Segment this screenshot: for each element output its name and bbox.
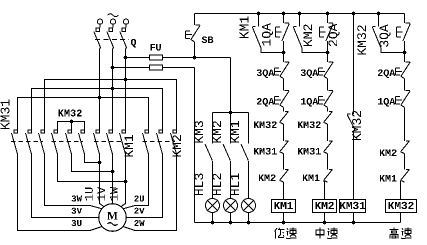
wire L3 chain b [404, 79, 406, 91]
wire KM31 coil to rail [353, 213, 355, 223]
pushbutton 3QA NC (L1) [275, 62, 290, 79]
label KM31 (L1) [254, 148, 277, 155]
wire lamp branch 3 lower [248, 213, 250, 223]
junction KM2 coil / bottom rail [323, 221, 327, 225]
wire 1QA to merge [283, 41, 285, 53]
junction SB / fuse line 1 [193, 56, 197, 60]
wire lamp branch 3 upper [248, 113, 250, 144]
junction rail / KM1 selfhold [257, 12, 261, 16]
wire KM31-1 to motor 3U [18, 154, 103, 231]
label KM3 [194, 121, 203, 143]
junction phase C / fuse line 1 [124, 56, 128, 60]
label 1QA (L3) [378, 98, 395, 107]
motor M circle [99, 204, 127, 232]
wire KM32 selfhold drop [378, 14, 380, 27]
wire L2 chain f [323, 180, 326, 199]
wire control neutral drop [194, 68, 196, 223]
wire KM2 selfhold foot + merge bar [302, 48, 328, 53]
wire L3 chain c [404, 107, 406, 141]
label KM31 (main contacts) [1, 100, 10, 130]
pushbutton SB (NC stop) [186, 25, 201, 42]
contact KM2 self-hold [293, 27, 302, 49]
junction rail / KM32 selfhold [377, 12, 381, 16]
coil KM1 [272, 200, 296, 213]
wire KM32 coil to rail [400, 213, 402, 223]
wire KM1-3 to motor 1W [121, 154, 126, 207]
wire KM1 selfhold drop [258, 14, 260, 27]
wire KM2-1 to motor 2U [123, 154, 149, 209]
contact KM31 NO (L2) [324, 141, 333, 154]
label 2W [134, 220, 144, 226]
pushbutton 3QA NC (L2) [319, 62, 334, 79]
wire L2 chain a [327, 53, 329, 62]
contactor KM32 main contact 1 [52, 130, 58, 154]
label speed low (low-speed) [275, 228, 297, 239]
wire KM1-2 to motor 1V [112, 154, 114, 204]
switch Q pole 2 (phase B) [107, 19, 116, 49]
wire KM1-1 to motor 1U [100, 154, 105, 207]
wire phase B vertical [112, 49, 114, 130]
contactor KM2 main contact 2 [157, 130, 163, 154]
label 3V [72, 208, 82, 214]
wire SB drop [194, 14, 196, 26]
label KM32 (KM31 branch) [352, 111, 361, 140]
junction phase B / feeder 2 [111, 87, 115, 91]
contact KM3 (lamp branch) [205, 144, 212, 161]
wire 3QA drop [404, 14, 406, 23]
switch Q pole 3 (phase C) [120, 19, 129, 49]
wire 2QA drop [327, 14, 329, 23]
motor tilde [108, 223, 118, 226]
label HL1 [231, 173, 240, 195]
junction KM1 coil / bottom rail [282, 221, 286, 225]
KM32 star bridge stub [71, 122, 73, 130]
contactor KM2 main contact 3 [171, 130, 177, 154]
junction 1W tie [124, 180, 128, 184]
label KM1 (L3) [380, 175, 397, 182]
wire L2 chain c [327, 107, 329, 111]
wire SB to fuse junction [194, 42, 196, 58]
label 3QA (L1) [257, 69, 275, 78]
junction 1V tie [111, 170, 115, 174]
wire KM31 branch lower [353, 131, 355, 200]
contactor KM31 main contact 1 [12, 130, 18, 154]
wire fuse line 1 (phase C to lamp feeder) [126, 57, 231, 59]
KM1 linkage (dashed) [94, 141, 124, 143]
wire KM31 branch upper [353, 14, 355, 114]
contact KM32 NO (L1) [280, 111, 289, 124]
wire KM32 selfhold foot + merge bar [381, 48, 405, 53]
contact KM32 NO (L2) [324, 111, 333, 124]
junction star bridge [70, 120, 74, 124]
label 1QA (L2) [301, 98, 318, 107]
contact KM1 self-hold [252, 27, 261, 49]
wire KM1 selfhold foot + merge bar [261, 48, 284, 53]
junction 1U tie [98, 161, 102, 165]
contact KM2 (lamp branch) [223, 144, 230, 161]
power supply tilde (AC source marker) [108, 14, 119, 17]
switch Q pole 1 (phase A) [94, 19, 103, 49]
pushbutton 2QA NC (L3) [396, 62, 411, 79]
contactor KM2 main contact 1 [143, 130, 149, 154]
contactor KM1 main contact 3 [120, 130, 126, 154]
contactor KM32 main contact 3 [79, 130, 85, 154]
wire 2QA to merge [327, 41, 329, 53]
wire lamp branch 3 middle [248, 161, 250, 199]
wire KM1 coil to rail [283, 213, 285, 223]
contact KM2 NO (L3) [401, 141, 410, 154]
wire L1 chain e [283, 154, 285, 170]
wire KM31-2 to motor 3V [32, 154, 99, 218]
contactor KM31 main contact 3 [39, 130, 45, 154]
KM32 linkage (dashed) [52, 141, 84, 143]
wire lamp branch 2 middle [230, 161, 232, 199]
wire L2 chain b [327, 79, 329, 91]
pushbutton 1QA NC (L3) [396, 91, 411, 108]
wire phase C vertical [125, 49, 127, 130]
junction merge L2 [326, 51, 330, 55]
label 3QA (L2) [301, 69, 319, 78]
label HL2 [212, 174, 221, 195]
junction rail / 1QA [282, 12, 286, 16]
wire L1 chain c [283, 107, 285, 111]
label speed high (high-speed) [389, 228, 411, 239]
wire L1 chain a [283, 53, 285, 62]
label 3QA (top) [380, 24, 391, 47]
switch Q linkage (dashed) [95, 39, 129, 41]
wire lamp branch 1 upper [212, 113, 214, 144]
wire feeder line 1 (phase C to KM31-3 and KM2-3) [45, 80, 177, 130]
KM32 star bridge bar [58, 122, 85, 130]
wire lamp header [213, 112, 249, 114]
pushbutton 2QA (NO start mid) [319, 23, 333, 41]
contact KM32 NO (KM31 branch) [347, 114, 355, 131]
lamp HL1 [242, 199, 256, 213]
junction rail / 2QA [326, 12, 330, 16]
junction lamp 3 / bottom rail [247, 221, 251, 225]
wire lamp branch 2 lower [230, 213, 232, 223]
label KM32 (L2) [298, 121, 321, 128]
wire L3 chain d [404, 154, 406, 170]
junction phase A / feeder 3 [98, 96, 102, 100]
label SB [202, 36, 214, 43]
wire L1 chain d [283, 124, 285, 141]
fuse FU-2 [150, 65, 163, 70]
label KM32 (main contacts) [58, 110, 81, 117]
label 1QA [262, 23, 273, 45]
label KM1 (L2) [303, 174, 320, 181]
label speed mid (mid-speed) [316, 228, 338, 239]
label 2QA (L3) [378, 69, 395, 78]
label KM31 (L2) [298, 148, 321, 155]
wire KM31-3 to motor 3W [45, 154, 103, 209]
wire KM2-3 to motor 2W [123, 154, 177, 231]
wire KM2 selfhold drop [299, 14, 301, 27]
coil KM2 [313, 200, 337, 213]
wire KM32-1 to node 1W [58, 154, 126, 182]
wire 1QA drop [283, 14, 285, 23]
label KM1 [231, 121, 240, 143]
label HL3 [194, 174, 203, 196]
control top rail [195, 13, 405, 15]
lamp HL2 [224, 199, 238, 213]
junction merge L3 [403, 51, 407, 55]
pushbutton 1QA NC (L2) [319, 91, 334, 108]
junction merge L1 [282, 51, 286, 55]
wire L2 chain d [327, 124, 329, 141]
fuse FU-1 [150, 55, 163, 60]
label 1V [97, 187, 105, 200]
wire KM2-2 to motor 2V [126, 154, 162, 218]
junction rail / KM2 selfhold [298, 12, 302, 16]
label KM2 [212, 121, 221, 142]
pushbutton 1QA (NO start low) [275, 23, 289, 41]
label 2QA (top) [329, 24, 340, 46]
wire lamp branch 1 lower [212, 213, 214, 223]
junction lamp 2 / bottom rail [229, 221, 233, 225]
label KM2 (L3) [380, 149, 397, 156]
junction phase C / feeder 1 [124, 78, 128, 82]
pushbutton 2QA NC (L1) [275, 91, 290, 108]
contactor KM31 main contact 2 [26, 130, 32, 154]
wire lamp branch 1 middle [212, 161, 214, 199]
contact KM1 NO (L2) [324, 169, 333, 182]
junction lamp header [229, 111, 233, 115]
wire KM2 coil to rail [324, 213, 326, 223]
label 3U [72, 220, 82, 226]
label Q [131, 39, 136, 48]
junction phase B / fuse line 2 [111, 66, 115, 70]
label 3W [72, 195, 82, 201]
KM31 linkage (dashed) [11, 141, 43, 143]
coil KM31 [340, 200, 366, 213]
contact KM2 NO (L1) [280, 169, 289, 182]
contact KM1 NO (L3) [401, 169, 410, 182]
label 1U [85, 188, 93, 201]
wire lamp branch 2 upper [230, 113, 232, 144]
wire L1 chain b [283, 79, 285, 91]
label KM2 (self-hold) [303, 25, 312, 46]
contact KM31 NO (L1) [280, 141, 289, 154]
contactor KM32 main contact 2 [66, 130, 72, 154]
wire KM32-2 to node 1V [72, 154, 113, 172]
label 2U [134, 195, 144, 201]
wire L2 chain e [327, 154, 329, 170]
label FU [150, 44, 161, 51]
label 1W [110, 187, 118, 201]
wire L3 chain e [400, 180, 402, 199]
label KM32 (L1) [254, 121, 277, 128]
motor letter M [107, 212, 117, 220]
label KM1 (main contacts) [124, 135, 133, 157]
label KM2 (L1) [259, 174, 276, 181]
label KM32 (self-hold) [357, 25, 366, 54]
control bottom rail [195, 222, 401, 224]
wire 3QA to merge [404, 41, 406, 53]
label 2V [134, 208, 144, 214]
label KM1 (self-hold) [240, 16, 249, 38]
lamp HL3 [206, 199, 220, 213]
wire phase A vertical [99, 49, 101, 130]
wire feeder line 3 (phase A to KM31-1 and KM2-1) [18, 98, 149, 130]
contact KM32 self-hold [372, 27, 381, 49]
wire lamp feeder drop [230, 58, 232, 113]
contactor KM1 main contact 2 [107, 130, 113, 154]
wire L1 chain f [283, 182, 285, 199]
wire KM32-3 to node 1U [85, 154, 100, 163]
wire L3 chain a [404, 53, 406, 62]
junction lamp 1 / bottom rail [211, 221, 215, 225]
junction rail / KM31 branch [352, 12, 356, 16]
contactor KM1 main contact 1 [94, 130, 100, 154]
wire feeder line 2 (phase B to KM31-2 and KM2-2) [32, 89, 163, 130]
label KM2 (main contacts) [172, 135, 181, 156]
KM2 linkage (dashed) [143, 141, 176, 143]
label 2QA (L1) [257, 98, 274, 107]
wire fuse line 2 (phase B to control drop) [113, 67, 195, 69]
pushbutton 3QA (NO start high) [396, 23, 410, 41]
contact KM1 (lamp branch) [241, 144, 248, 161]
coil KM32 [386, 200, 417, 213]
junction KM31 coil / bottom rail [352, 221, 356, 225]
